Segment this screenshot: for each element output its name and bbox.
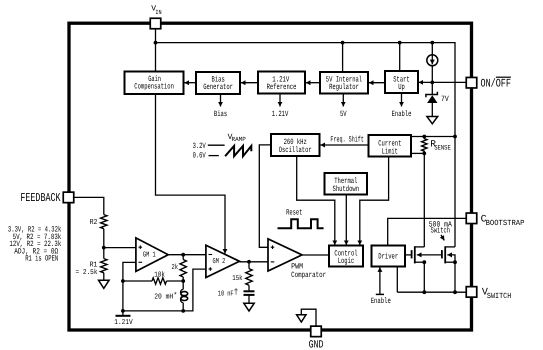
wire R2 to node xyxy=(103,229,105,259)
capacitor 10nF xyxy=(244,290,255,292)
wire ON/OFF to startup xyxy=(419,81,467,83)
ground arrow below R1 xyxy=(99,280,110,288)
wire driver gate line xyxy=(405,254,412,256)
svg-text:Enable: Enable xyxy=(392,110,412,119)
label arrow 500mA switch xyxy=(441,235,444,241)
node rsense top xyxy=(422,135,426,139)
svg-text:SWITCH: SWITCH xyxy=(487,292,512,301)
resistor R2 xyxy=(101,215,107,229)
wire PWM out to control logic xyxy=(302,254,329,256)
node GM1 out xyxy=(181,253,185,257)
node vin drop xyxy=(453,135,457,139)
resistor 15k xyxy=(246,269,252,286)
comparator PWM plus mark xyxy=(271,246,275,248)
node onoff-zener xyxy=(430,81,434,85)
svg-text:3.2V: 3.2V xyxy=(193,142,206,151)
supply 1.21V symbol xyxy=(122,311,124,316)
wire 10k right xyxy=(167,280,184,282)
ground arrow below 10nF xyxy=(244,303,254,311)
node 2k-10k-L xyxy=(181,279,185,283)
svg-text:Reference: Reference xyxy=(267,83,297,92)
wire Q2 body arrow to source xyxy=(447,255,455,262)
node 10k left xyxy=(121,279,125,283)
wire VIN stem to rail xyxy=(155,29,157,43)
wire thermal shutdown to control logic xyxy=(345,195,347,246)
svg-text:Oscillator: Oscillator xyxy=(279,146,312,155)
pin FEEDBACK xyxy=(63,192,74,203)
wire vin to switch FET drain xyxy=(454,137,456,247)
wire 1.21V rail to GM2 plus xyxy=(123,269,206,311)
svg-text:10 nF: 10 nF xyxy=(218,289,234,298)
label ON/OFF overline xyxy=(496,76,511,78)
wire Bias down arrow xyxy=(220,94,222,107)
wire startup top stem xyxy=(399,43,401,71)
zener diode D1 7V xyxy=(431,82,433,94)
svg-text:BOOTSTRAP: BOOTSTRAP xyxy=(486,219,525,228)
node switch FET source on rail xyxy=(453,290,457,294)
wire biasgen to gaincomp arrow xyxy=(184,82,196,84)
wire GM2 out to PWM minus xyxy=(240,261,269,263)
wire rsense to sense FET drain xyxy=(423,153,425,247)
svg-text:†: † xyxy=(234,288,239,297)
node sense FET source on rail xyxy=(422,290,426,294)
wire Q1 body arrow to Q2 gate xyxy=(417,254,442,256)
svg-text:Regulator: Regulator xyxy=(329,83,359,92)
svg-text:Bias: Bias xyxy=(214,110,227,119)
svg-text:R1: R1 xyxy=(90,261,98,269)
block Driver xyxy=(372,246,406,267)
wire startup to 5Vreg arrow xyxy=(369,82,385,84)
svg-text:7V: 7V xyxy=(441,95,449,104)
svg-text:Limit: Limit xyxy=(382,147,398,156)
wire vswitch rail xyxy=(397,291,466,293)
wire R1 to gnd arrow xyxy=(103,273,105,280)
svg-text:15k: 15k xyxy=(232,274,243,283)
svg-text:Compensation: Compensation xyxy=(134,83,174,92)
inductor 20mH xyxy=(182,281,184,289)
svg-text:= 2.5k: = 2.5k xyxy=(76,268,98,277)
svg-text:1.21V: 1.21V xyxy=(272,110,289,119)
wire freq shift arrow xyxy=(320,144,368,146)
wire feedback pin to divider xyxy=(74,197,104,214)
node rail-startup xyxy=(398,41,402,45)
wire current limit to control logic xyxy=(360,157,389,246)
wire oscillator reset to control logic xyxy=(297,156,335,245)
waveform Reset pulses xyxy=(278,219,324,228)
svg-text:Shutdown: Shutdown xyxy=(333,185,360,194)
pin GND xyxy=(311,326,322,337)
wire to 15k xyxy=(248,262,250,269)
wire to 2k xyxy=(182,255,184,260)
wire GM1 out to GM2 minus xyxy=(168,254,206,256)
wire divider to GM1 + xyxy=(104,247,136,249)
block Control Logic xyxy=(329,246,363,267)
block Thermal Shutdown xyxy=(325,173,368,195)
svg-text:PWM: PWM xyxy=(291,262,303,271)
svg-text:GM 1: GM 1 xyxy=(143,250,156,259)
svg-text:5V: 5V xyxy=(340,110,347,119)
wire current limit to rsense xyxy=(411,136,455,138)
opamp GM1 minus mark xyxy=(139,261,143,263)
wire oscillator to PWM + input xyxy=(259,145,271,247)
wire 15k to cap xyxy=(248,285,250,291)
ground arrow below zener xyxy=(427,117,438,124)
block 1.21V Reference xyxy=(258,72,305,94)
waveform VRAMP sawtooth xyxy=(225,146,251,156)
node rail-5Vreg xyxy=(341,41,345,45)
block Gain Compensation xyxy=(125,72,184,95)
svg-text:R2: R2 xyxy=(90,218,98,227)
opamp GM2 minus mark xyxy=(209,254,213,256)
wire enable arrow into driver xyxy=(379,267,381,294)
wire 1.21V down arrow xyxy=(279,94,281,107)
svg-text:SENSE: SENSE xyxy=(434,144,451,152)
IC outline border xyxy=(69,23,472,330)
block Bias Generator xyxy=(196,72,240,94)
svg-text:*: * xyxy=(173,291,177,300)
node divider xyxy=(102,246,106,250)
wire driver bottom to vswitch rail xyxy=(396,267,398,293)
resistor 10k xyxy=(152,278,166,284)
transistor Q2 switch FET xyxy=(441,250,443,258)
svg-text:2k: 2k xyxy=(172,263,179,272)
ground arrow internal xyxy=(297,315,306,322)
opamp GM2 plus mark xyxy=(209,268,213,270)
resistor 2k xyxy=(180,260,186,278)
svg-text:10k: 10k xyxy=(154,271,165,280)
pin CBOOTSTRAP xyxy=(466,213,477,224)
svg-text:FEEDBACK: FEEDBACK xyxy=(20,191,61,205)
level line 0.6V xyxy=(209,155,219,157)
wire GM1 minus to 1.21V rail xyxy=(123,262,136,311)
svg-text:Switch: Switch xyxy=(431,227,451,236)
comparator PWM xyxy=(268,239,302,271)
wire ref to biasgen arrow xyxy=(241,82,258,84)
wire 5V regulator top stem xyxy=(342,43,344,72)
wire top VIN rail xyxy=(156,43,456,137)
resistor R1 xyxy=(101,259,107,273)
svg-text:1.21V: 1.21V xyxy=(114,318,133,327)
svg-text:Enable: Enable xyxy=(371,297,391,306)
node GM2 out xyxy=(247,260,251,264)
block Start Up xyxy=(385,71,418,93)
level line 3.2V xyxy=(208,144,225,146)
opamp GM1 plus mark xyxy=(139,245,275,270)
svg-text:20 mH: 20 mH xyxy=(154,292,173,301)
wire 5V down arrow xyxy=(342,94,344,107)
node rail-currentsource xyxy=(430,41,434,45)
svg-text:ON/OFF: ON/OFF xyxy=(481,77,511,90)
svg-text:Generator: Generator xyxy=(203,83,233,92)
pin ON/OFF xyxy=(466,77,477,88)
wire Enable down arrow xyxy=(401,93,403,107)
wire GND pin to internal ground xyxy=(301,309,316,326)
svg-text:Logic: Logic xyxy=(338,257,355,266)
opamp GM2 xyxy=(206,245,240,277)
svg-text:IN: IN xyxy=(155,9,161,16)
wire VIN down through gain comp to GM2 arrow xyxy=(155,43,157,72)
svg-text:GM 2: GM 2 xyxy=(213,257,226,266)
transistor Q1 sense FET xyxy=(411,250,413,258)
wire 10k left xyxy=(123,280,152,282)
current source I1 xyxy=(427,55,438,66)
block 5V Internal Regulator xyxy=(320,72,368,94)
resistor RSENSE xyxy=(422,137,427,154)
svg-text:Freq. Shift: Freq. Shift xyxy=(330,135,364,144)
pin VIN xyxy=(150,18,161,29)
svg-text:0.6V: 0.6V xyxy=(193,151,206,160)
block 260 kHz Oscillator xyxy=(271,134,320,156)
svg-text:Up: Up xyxy=(398,83,405,92)
comparator PWM minus mark xyxy=(271,261,275,263)
opamp GM1 xyxy=(136,238,168,272)
block Current Limit xyxy=(369,135,412,157)
svg-text:GND: GND xyxy=(309,339,324,350)
node rsense bottom xyxy=(422,152,426,156)
wire 5Vreg to ref arrow xyxy=(306,82,320,84)
node rail-VIN xyxy=(154,41,158,45)
wire 2k to node xyxy=(182,277,184,281)
svg-text:RAMP: RAMP xyxy=(232,136,246,143)
wire bootstrap to driver top xyxy=(388,218,467,245)
svg-text:Driver: Driver xyxy=(378,252,398,261)
pin VSWITCH xyxy=(466,287,477,298)
node inductor bottom xyxy=(181,309,185,313)
svg-text:Reset: Reset xyxy=(286,208,302,217)
svg-text:R1 is OPEN: R1 is OPEN xyxy=(25,255,58,264)
svg-text:Comparator: Comparator xyxy=(291,271,326,280)
node 1.21V rail left xyxy=(121,309,125,313)
